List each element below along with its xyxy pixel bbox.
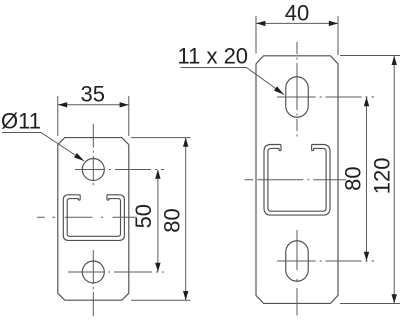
svg-text:120: 120 — [369, 158, 394, 195]
svg-text:40: 40 — [285, 0, 309, 25]
svg-text:Ø11: Ø11 — [1, 109, 41, 134]
svg-text:11 x 20: 11 x 20 — [178, 44, 249, 69]
svg-text:50: 50 — [131, 204, 156, 228]
svg-text:80: 80 — [340, 166, 365, 190]
svg-text:80: 80 — [159, 208, 184, 232]
svg-text:35: 35 — [81, 82, 105, 107]
